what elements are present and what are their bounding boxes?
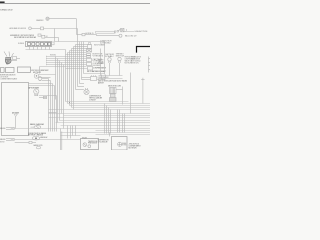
sensor return wire 1 <box>100 49 102 76</box>
svg-text:COMPRESSEUR DE: COMPRESSEUR DE <box>89 96 101 98</box>
svg-text:DEMARREUR: DEMARREUR <box>36 19 44 22</box>
svg-text:DU MOTEUR: DU MOTEUR <box>0 76 9 78</box>
wire auxiliary to inline connector <box>31 28 40 30</box>
center harness vertical 3 <box>59 61 61 121</box>
junction dot <box>69 102 70 103</box>
long bus wire d <box>49 109 151 111</box>
recirculation valve label block <box>131 56 142 65</box>
stub wire lower <box>80 83 85 85</box>
wire camshaft 2 a <box>39 95 57 97</box>
bottom drop pair b <box>61 132 63 151</box>
thick power corner top right <box>137 47 151 53</box>
fuse pin 2 <box>33 47 35 50</box>
long bus wire e <box>49 113 151 115</box>
ignition coil motor symbol <box>84 88 89 95</box>
ground bus wire k <box>15 128 151 130</box>
center harness vertical 7 <box>67 53 69 104</box>
svg-text:CONNECTEUR DE MASSE: CONNECTEUR DE MASSE <box>28 132 46 135</box>
fuse cell 6 <box>48 43 51 46</box>
svg-text:SWITCH): SWITCH) <box>131 62 139 64</box>
fuse pin 4 <box>41 47 43 50</box>
ground connector 1 <box>6 128 15 130</box>
wire box feed a <box>29 83 53 85</box>
stub wire to sensor net <box>84 73 105 75</box>
svg-text:MASSE: MASSE <box>0 127 6 130</box>
svg-text:MOTEUR: MOTEUR <box>125 62 133 64</box>
bus terminal ticks <box>46 56 48 66</box>
terminal pair box b <box>87 56 91 58</box>
svg-text:RELAIS: RELAIS <box>82 136 87 139</box>
long bus wire m <box>61 132 151 134</box>
center harness vertical 9 <box>71 49 73 108</box>
fuse cell 5 <box>45 43 48 46</box>
emergency valve body <box>110 88 117 94</box>
svg-text:CYCLINGUE: CYCLINGUE <box>98 141 108 143</box>
center harness vertical 10 <box>75 45 77 90</box>
fuse block F1 <box>26 42 52 47</box>
harness cross link <box>49 112 57 114</box>
svg-text:MASSE: MASSE <box>0 138 6 141</box>
camshaft sensor 2 <box>34 89 39 96</box>
engine earth grommet <box>32 136 39 140</box>
wire valve to riser <box>116 89 123 91</box>
wire box feed b <box>29 85 55 87</box>
battery positive symbol <box>141 78 144 81</box>
fuse pin 6 <box>49 47 51 50</box>
harness bus wire 3 <box>47 60 87 62</box>
short right wire l <box>96 130 151 132</box>
generator inline connector box 2 <box>42 35 45 38</box>
compressor feed wire <box>66 68 88 70</box>
svg-text:CONNECTEUR: CONNECTEUR <box>100 41 112 43</box>
svg-text:TEMOIN DE: TEMOIN DE <box>88 141 97 143</box>
right feed wire <box>130 73 132 114</box>
stub wire to condenser upper <box>78 86 85 88</box>
page header black tab <box>0 2 5 3</box>
right margin tick 4 <box>149 69 151 71</box>
svg-text:CAPTEUR: CAPTEUR <box>105 53 115 56</box>
left harness drop 4 <box>54 86 56 132</box>
oil pressure sender B1 <box>34 74 39 79</box>
wire generator drop <box>58 38 60 42</box>
right drop wire group B4 <box>124 114 126 133</box>
wire auxiliary drop <box>54 29 56 42</box>
wire sender bus <box>40 66 87 68</box>
junction block box <box>18 67 31 72</box>
antenna symbol <box>14 114 17 129</box>
ground wire 3 <box>15 142 29 144</box>
right drop wire group B1 <box>117 110 119 133</box>
center harness vertical 9b <box>73 47 75 110</box>
mid drop wire group A4 <box>110 110 112 134</box>
thermoswitch 2 symbol <box>118 57 121 63</box>
center harness vertical 13 <box>81 42 83 80</box>
right margin tick 1 <box>149 58 151 60</box>
wire starter feed drop <box>76 19 78 35</box>
auxiliary connector circle <box>29 27 32 30</box>
compressor relay box <box>88 67 93 71</box>
left harness drop 2 <box>50 81 52 132</box>
long bus wire c <box>72 107 151 109</box>
bottom drop wire 2 <box>70 126 72 139</box>
center harness vertical 1 <box>55 57 57 100</box>
svg-text:AUXILIARE SOLENOID: AUXILIARE SOLENOID <box>10 27 27 30</box>
harness bus wire 2 <box>47 58 87 60</box>
condenser box <box>91 75 97 80</box>
left harness drop 3 <box>52 84 54 132</box>
bottom link wire <box>61 135 81 137</box>
thermo sensor column labels <box>98 59 104 66</box>
stub wire to coil <box>76 89 84 91</box>
center harness vertical 14 <box>83 42 85 74</box>
svg-text:BOITE DE: BOITE DE <box>93 54 103 56</box>
wire idle feed jog <box>96 35 98 36</box>
bottom drop wire 4 <box>75 126 77 136</box>
svg-text:THERMO: THERMO <box>116 54 125 56</box>
fuse cell 2 <box>32 43 35 46</box>
high altitude relay K1 <box>117 28 134 32</box>
mid drop wire group A2 <box>106 106 108 134</box>
wire thermoswitch 2 down <box>119 63 121 76</box>
inline connector on feed <box>82 33 85 35</box>
idle solenoid box <box>88 45 92 49</box>
emergency valve base <box>110 98 117 102</box>
center harness vertical 11 <box>77 29 79 87</box>
harness bus wire 4 <box>47 62 87 64</box>
wire idle feed 2 <box>85 34 97 36</box>
altitude compensation label <box>125 56 137 65</box>
wire to earth point <box>32 142 36 144</box>
terminal pair box a <box>87 54 91 56</box>
svg-text:FAISCEAU: FAISCEAU <box>50 53 56 56</box>
gauge symbol 1 <box>83 143 87 147</box>
bottom drop wire 3 <box>72 126 74 136</box>
component feed wire 5 <box>68 52 87 54</box>
inline connector circle <box>119 34 122 37</box>
component feed wire 6 <box>66 54 87 56</box>
fuse bus wire <box>26 49 66 51</box>
fuse cell 1 <box>28 43 31 46</box>
svg-text:MASSE BOITE: MASSE BOITE <box>34 144 43 147</box>
svg-text:CONDUIT: CONDUIT <box>89 99 96 101</box>
long bus wire j <box>61 125 151 127</box>
left harness drop 5 <box>56 96 58 132</box>
center harness vertical 12 <box>79 42 81 84</box>
wire sender to mesh <box>39 74 56 76</box>
svg-text:DE FREIN: DE FREIN <box>93 65 102 67</box>
wire thermoswitch 1 down <box>109 63 111 76</box>
fuse pin 1 <box>29 47 31 50</box>
svg-text:HIGH ALTITUDE: HIGH ALTITUDE <box>135 30 149 33</box>
gauge symbol 2 <box>88 145 91 148</box>
harness bus wire 1 <box>47 56 87 58</box>
component feed wire 4 <box>70 50 87 52</box>
component feed wire 1 <box>76 44 88 46</box>
fuse pin 3 <box>37 47 39 50</box>
sensor return wire 2 <box>104 42 106 75</box>
bottom wire o <box>96 134 151 136</box>
svg-text:MOTEUR: MOTEUR <box>122 145 127 147</box>
svg-text:DE CLIMATISATION AVANT: DE CLIMATISATION AVANT <box>87 70 106 73</box>
svg-text:RACCORD 12V: RACCORD 12V <box>125 35 137 38</box>
fuse cell 4 <box>40 43 43 46</box>
svg-text:MASSE CHASSIS AV: MASSE CHASSIS AV <box>30 123 45 126</box>
capsule end connector ticks <box>115 30 116 33</box>
svg-text:DE ROTATION DU MOTEUR AV: DE ROTATION DU MOTEUR AV <box>14 36 37 39</box>
bottom drop wire 1 <box>67 126 69 139</box>
center harness vertical 4 <box>61 63 63 114</box>
stub wire to condenser pin <box>82 79 91 81</box>
secours header bar <box>99 75 123 79</box>
wire auxiliary feed <box>44 28 78 30</box>
wire generator feed right <box>45 37 59 39</box>
svg-text:MOTEUR: MOTEUR <box>129 147 138 149</box>
inline connector small <box>44 96 47 98</box>
emergency valve stem <box>111 94 116 98</box>
left harness drop 1 <box>48 79 50 132</box>
svg-text:COMPRESSOR: COMPRESSOR <box>98 140 110 142</box>
earth point oval <box>36 146 40 148</box>
wire main harness horizontal <box>55 41 105 43</box>
relay box 2 <box>6 68 15 73</box>
right margin wire <box>148 57 150 73</box>
wire idle feed <box>77 34 83 36</box>
center harness vertical 6 <box>65 50 67 102</box>
relay box 1 <box>1 68 5 73</box>
relay X box <box>87 49 92 53</box>
ground connector 2 <box>6 139 15 141</box>
component feed wire 2 <box>74 46 88 48</box>
chassis earth grommet <box>31 126 41 129</box>
long bus wire g <box>49 117 151 119</box>
fuse block tab <box>52 42 55 45</box>
camshaft sensor 1 <box>38 77 42 81</box>
short right wire f <box>64 115 151 117</box>
feed wire to junction box <box>109 133 111 137</box>
starter pigtail connector <box>13 57 17 60</box>
right drop wire group B3 <box>122 114 124 133</box>
idle solenoid box pin cell <box>88 43 90 45</box>
long bus wire i <box>56 122 151 124</box>
svg-text:RELAIS: RELAIS <box>122 142 126 145</box>
svg-text:VITESSES: VITESSES <box>93 56 104 58</box>
wire camshaft 1 a <box>42 78 49 80</box>
bottom drop pair a <box>60 129 62 151</box>
junction connector symbol <box>118 142 122 146</box>
long bus wire b <box>70 105 151 107</box>
wire starter feed <box>49 18 76 20</box>
fuse pin 5 <box>45 47 47 50</box>
fuse cell 3 <box>36 43 39 46</box>
junction connector box bottom right <box>112 137 128 151</box>
corner bus wire a <box>66 101 129 103</box>
svg-text:JONCTION DU: JONCTION DU <box>129 144 140 146</box>
svg-text:SCHEMA DU CIRCUIT: SCHEMA DU CIRCUIT <box>0 8 13 11</box>
svg-text:HIGH ALTITUDE: HIGH ALTITUDE <box>125 56 136 59</box>
starter motor pictorial M1 <box>4 52 14 65</box>
inline earth connector <box>29 141 32 143</box>
center harness vertical 5 <box>63 65 65 129</box>
mid drop wire group A1 <box>104 104 106 134</box>
thermoswitch 1 symbol <box>108 58 111 63</box>
right margin tick 2 <box>149 62 151 64</box>
center harness vertical 2 <box>57 59 59 123</box>
radio unit box <box>2 83 29 136</box>
svg-text:24: 24 <box>46 36 48 38</box>
valve riser wire <box>122 87 124 105</box>
inline connector box <box>41 27 44 30</box>
wire camshaft 2 b <box>39 97 47 99</box>
svg-text:MOTEUR: MOTEUR <box>0 141 5 143</box>
ground wire 2 <box>15 139 81 141</box>
generator inline connector box 1 <box>38 34 41 36</box>
bottom right corner caption <box>129 144 141 150</box>
stub wire to condenser pin 2 <box>82 77 91 79</box>
svg-text:PRESSION: PRESSION <box>88 143 98 145</box>
cable capsule label <box>96 32 115 34</box>
component feed wire 3 <box>72 48 87 50</box>
right margin tick 3 <box>149 65 151 67</box>
right drop wire group B2 <box>119 110 121 133</box>
wire camshaft 1 b <box>42 80 51 82</box>
sensor box d <box>87 63 92 66</box>
long bus wire a <box>68 103 151 105</box>
svg-text:BOITIER DE JONCTION: BOITIER DE JONCTION <box>0 74 16 76</box>
starter connector circle <box>46 17 49 20</box>
wire from positive down <box>142 81 144 103</box>
center harness vertical 8 <box>69 51 71 106</box>
harness bus wire 5 <box>47 64 87 66</box>
short right wire h <box>60 120 151 122</box>
mid drop wire group A3 <box>108 108 110 134</box>
wire starter to junction <box>11 60 17 62</box>
svg-text:FUSES: FUSES <box>18 43 24 45</box>
gauge cluster box <box>81 139 99 150</box>
top border line <box>0 3 150 5</box>
sensor box c <box>87 59 92 62</box>
